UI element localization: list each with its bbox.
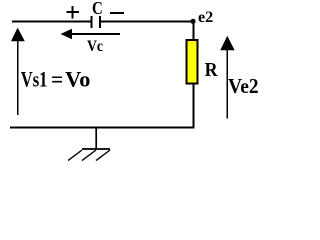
svg-text:e2: e2 [198, 9, 213, 26]
polarity minus [110, 12, 124, 14]
wire top-left segment [12, 21, 91, 23]
svg-text:Vc: Vc [87, 38, 103, 55]
svg-text:Vs1: Vs1 [21, 67, 48, 92]
wire resistor down to bottom wire [192, 84, 194, 128]
resistor R [187, 40, 198, 83]
svg-text:=: = [51, 67, 63, 92]
voltage arrow Ve2 [220, 36, 234, 119]
wire e2 down to resistor [192, 21, 194, 40]
ground [68, 128, 110, 161]
label Vs1 = Vo [21, 67, 91, 92]
svg-text:C: C [92, 0, 103, 18]
svg-text:Ve2: Ve2 [228, 74, 259, 98]
wire bottom [10, 127, 194, 129]
voltage arrow Vs1 [11, 28, 25, 115]
voltage arrow Vc [61, 29, 120, 39]
node e2 junction dot [190, 19, 195, 24]
capacitor C [91, 16, 102, 28]
wire top-right segment [101, 21, 194, 23]
svg-text:Vo: Vo [65, 67, 90, 92]
polarity plus [67, 6, 79, 18]
svg-text:R: R [205, 59, 218, 81]
